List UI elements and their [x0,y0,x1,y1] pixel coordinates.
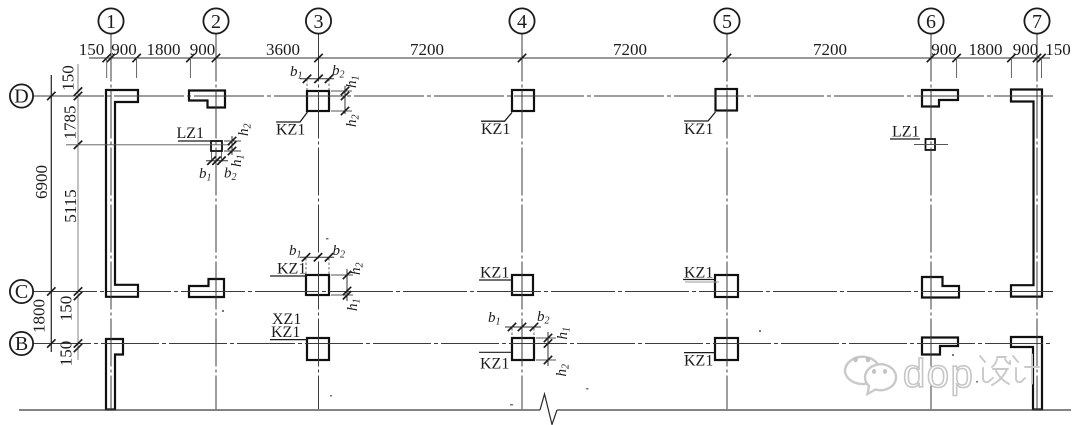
svg-text:6: 6 [926,11,936,33]
column KZ1 grid5/D [716,89,738,111]
svg-text:7200: 7200 [813,40,847,59]
svg-text:5: 5 [722,11,732,33]
column LZ1 grid2 [211,141,222,151]
column KZ1 grid3/D [307,91,329,111]
svg-text:150: 150 [57,296,76,322]
wall stub grid7 below B [1011,337,1042,410]
axis bubble 2 [203,8,228,33]
top dimension ticks [103,54,111,62]
svg-text:LZ1: LZ1 [177,125,205,142]
column KZ1 grid3/B [307,338,329,360]
svg-text:900: 900 [1013,40,1039,59]
wall column grid2/C [189,279,224,297]
svg-text:KZ1: KZ1 [271,324,300,341]
svg-text:1800: 1800 [969,40,1003,59]
b1 b2 h1 h2 dims for KZ1 grid4/B [511,328,513,337]
grid line 7 vertical [1036,34,1038,410]
b1 b2 h1 h2 dims for LZ1 grid2 [206,160,228,162]
svg-text:7200: 7200 [613,40,647,59]
left outer dimension line [50,75,52,352]
svg-text:B: B [15,333,28,355]
svg-text:3600: 3600 [266,40,300,59]
column KZ1 grid3/C [306,275,329,295]
wall column grid6/D [922,90,958,107]
svg-text:4: 4 [517,11,527,33]
svg-text:7: 7 [1032,11,1042,33]
svg-text:1785: 1785 [61,106,80,140]
svg-text:5115: 5115 [61,189,80,222]
wall column grid2/D [189,91,225,108]
column KZ1 grid5/B [715,338,738,360]
svg-text:KZ1: KZ1 [481,121,510,138]
grid line 6 vertical [930,34,932,410]
svg-text:150: 150 [79,40,105,59]
wall column grid6/C [922,277,959,298]
column KZ1 grid5/C [715,275,738,297]
grid line B [33,343,1053,345]
svg-text:3: 3 [314,11,324,33]
svg-text:150: 150 [1045,40,1071,59]
left inner dimension line [77,64,79,360]
svg-text:150: 150 [57,341,76,367]
top extension stubs [106,58,108,78]
grid line 1 vertical [110,34,112,410]
axis bubble 4 [509,8,534,33]
svg-text:LZ1: LZ1 [892,124,920,141]
column LZ1 grid6 [926,139,936,150]
svg-text:150: 150 [59,65,78,91]
axis bubble D [10,84,33,107]
svg-text:KZ1: KZ1 [684,121,713,138]
wall right channel grid7 D-to-C [1011,90,1042,297]
b1 b2 h1 h2 dims for KZ1 grid3/D [306,79,308,90]
axis bubble 5 [714,8,739,33]
svg-text:D: D [14,86,28,108]
svg-text:1800: 1800 [147,40,181,59]
wall left channel grid1 D-to-C [106,90,138,297]
axis bubble B [10,332,33,355]
wall column grid6/B [922,338,958,355]
svg-text:C: C [15,281,28,303]
svg-text:KZ1: KZ1 [277,261,306,278]
watermark wechat icon [845,357,896,394]
grid line 4 vertical [521,34,523,410]
axis bubble 3 [306,8,331,33]
break symbol [540,394,557,425]
top dimension line [89,57,1050,59]
svg-text:KZ1: KZ1 [276,122,305,139]
b1 b2 h1 h2 dims for KZ1 grid3/C [305,258,307,274]
svg-text:900: 900 [931,40,957,59]
axis bubble C [10,280,33,303]
bottom edge line [19,409,540,411]
svg-text:900: 900 [111,40,137,59]
axis bubble 7 [1024,8,1049,33]
svg-text:7200: 7200 [410,40,444,59]
column KZ1 grid4/B [512,338,534,360]
svg-text:KZ1: KZ1 [684,353,713,370]
grid line 5 vertical [726,34,728,410]
wall stub grid1 below B [106,339,123,410]
svg-text:1800: 1800 [30,299,49,333]
svg-text:2: 2 [211,11,221,33]
axis bubble 6 [918,8,943,33]
svg-text:KZ1: KZ1 [480,265,509,282]
svg-text:900: 900 [190,40,216,59]
LZ1 extension line right [914,144,948,146]
grid line 2 vertical [215,34,217,410]
grid line D [34,95,1053,97]
grid line 3 vertical [318,34,320,410]
LZ1 extension line left [66,144,230,146]
watermark 设计 characters [980,355,1039,386]
grid line C [33,291,1053,293]
scan specks [222,238,978,406]
svg-text:dop: dop [903,352,974,396]
column KZ1 grid4/D [512,90,534,111]
axis bubble 1 [98,8,123,33]
svg-text:6900: 6900 [32,165,51,199]
column KZ1 grid4/C [512,275,533,295]
svg-text:1: 1 [106,11,116,33]
svg-text:KZ1: KZ1 [480,356,509,373]
